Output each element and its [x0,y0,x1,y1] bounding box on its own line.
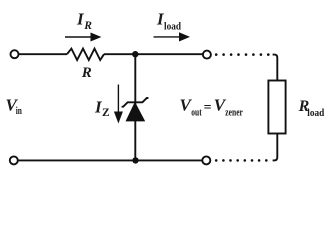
svg-text:out: out [191,107,202,119]
junction node bottom [132,157,138,163]
wire elbow to R_load top [273,55,278,81]
terminal circle bottom-left [10,156,18,164]
wire zener branch vertical [134,54,136,160]
terminal circle top-left [11,50,19,58]
dotted wire top-right [215,53,270,56]
dotted wire bottom-right [215,159,268,162]
terminal circle top-right [203,51,211,59]
wire top-left to resistor [19,53,67,55]
current arrow I_R [65,33,101,42]
resistor R_load (box) [268,81,285,134]
current arrow I_load [154,32,191,41]
svg-text:load: load [307,107,324,119]
wire R_load bottom elbow [273,134,278,161]
current arrow I_Z [114,85,123,124]
zener diode D1 anode triangle [126,103,144,121]
svg-text:R: R [81,65,92,81]
svg-text:Z: Z [102,107,110,119]
junction node top [132,51,138,57]
svg-text:zener: zener [225,107,243,119]
wire bottom rail [18,159,203,161]
svg-text:load: load [164,21,181,33]
terminal circle bottom-right [202,156,210,164]
svg-text:R: R [83,20,92,32]
zener diode D1 cathode bar [122,98,149,107]
wire resistor to top-right terminal [104,53,203,55]
svg-text:in: in [16,105,22,117]
resistor R [67,49,104,60]
svg-text:=: = [204,101,212,116]
